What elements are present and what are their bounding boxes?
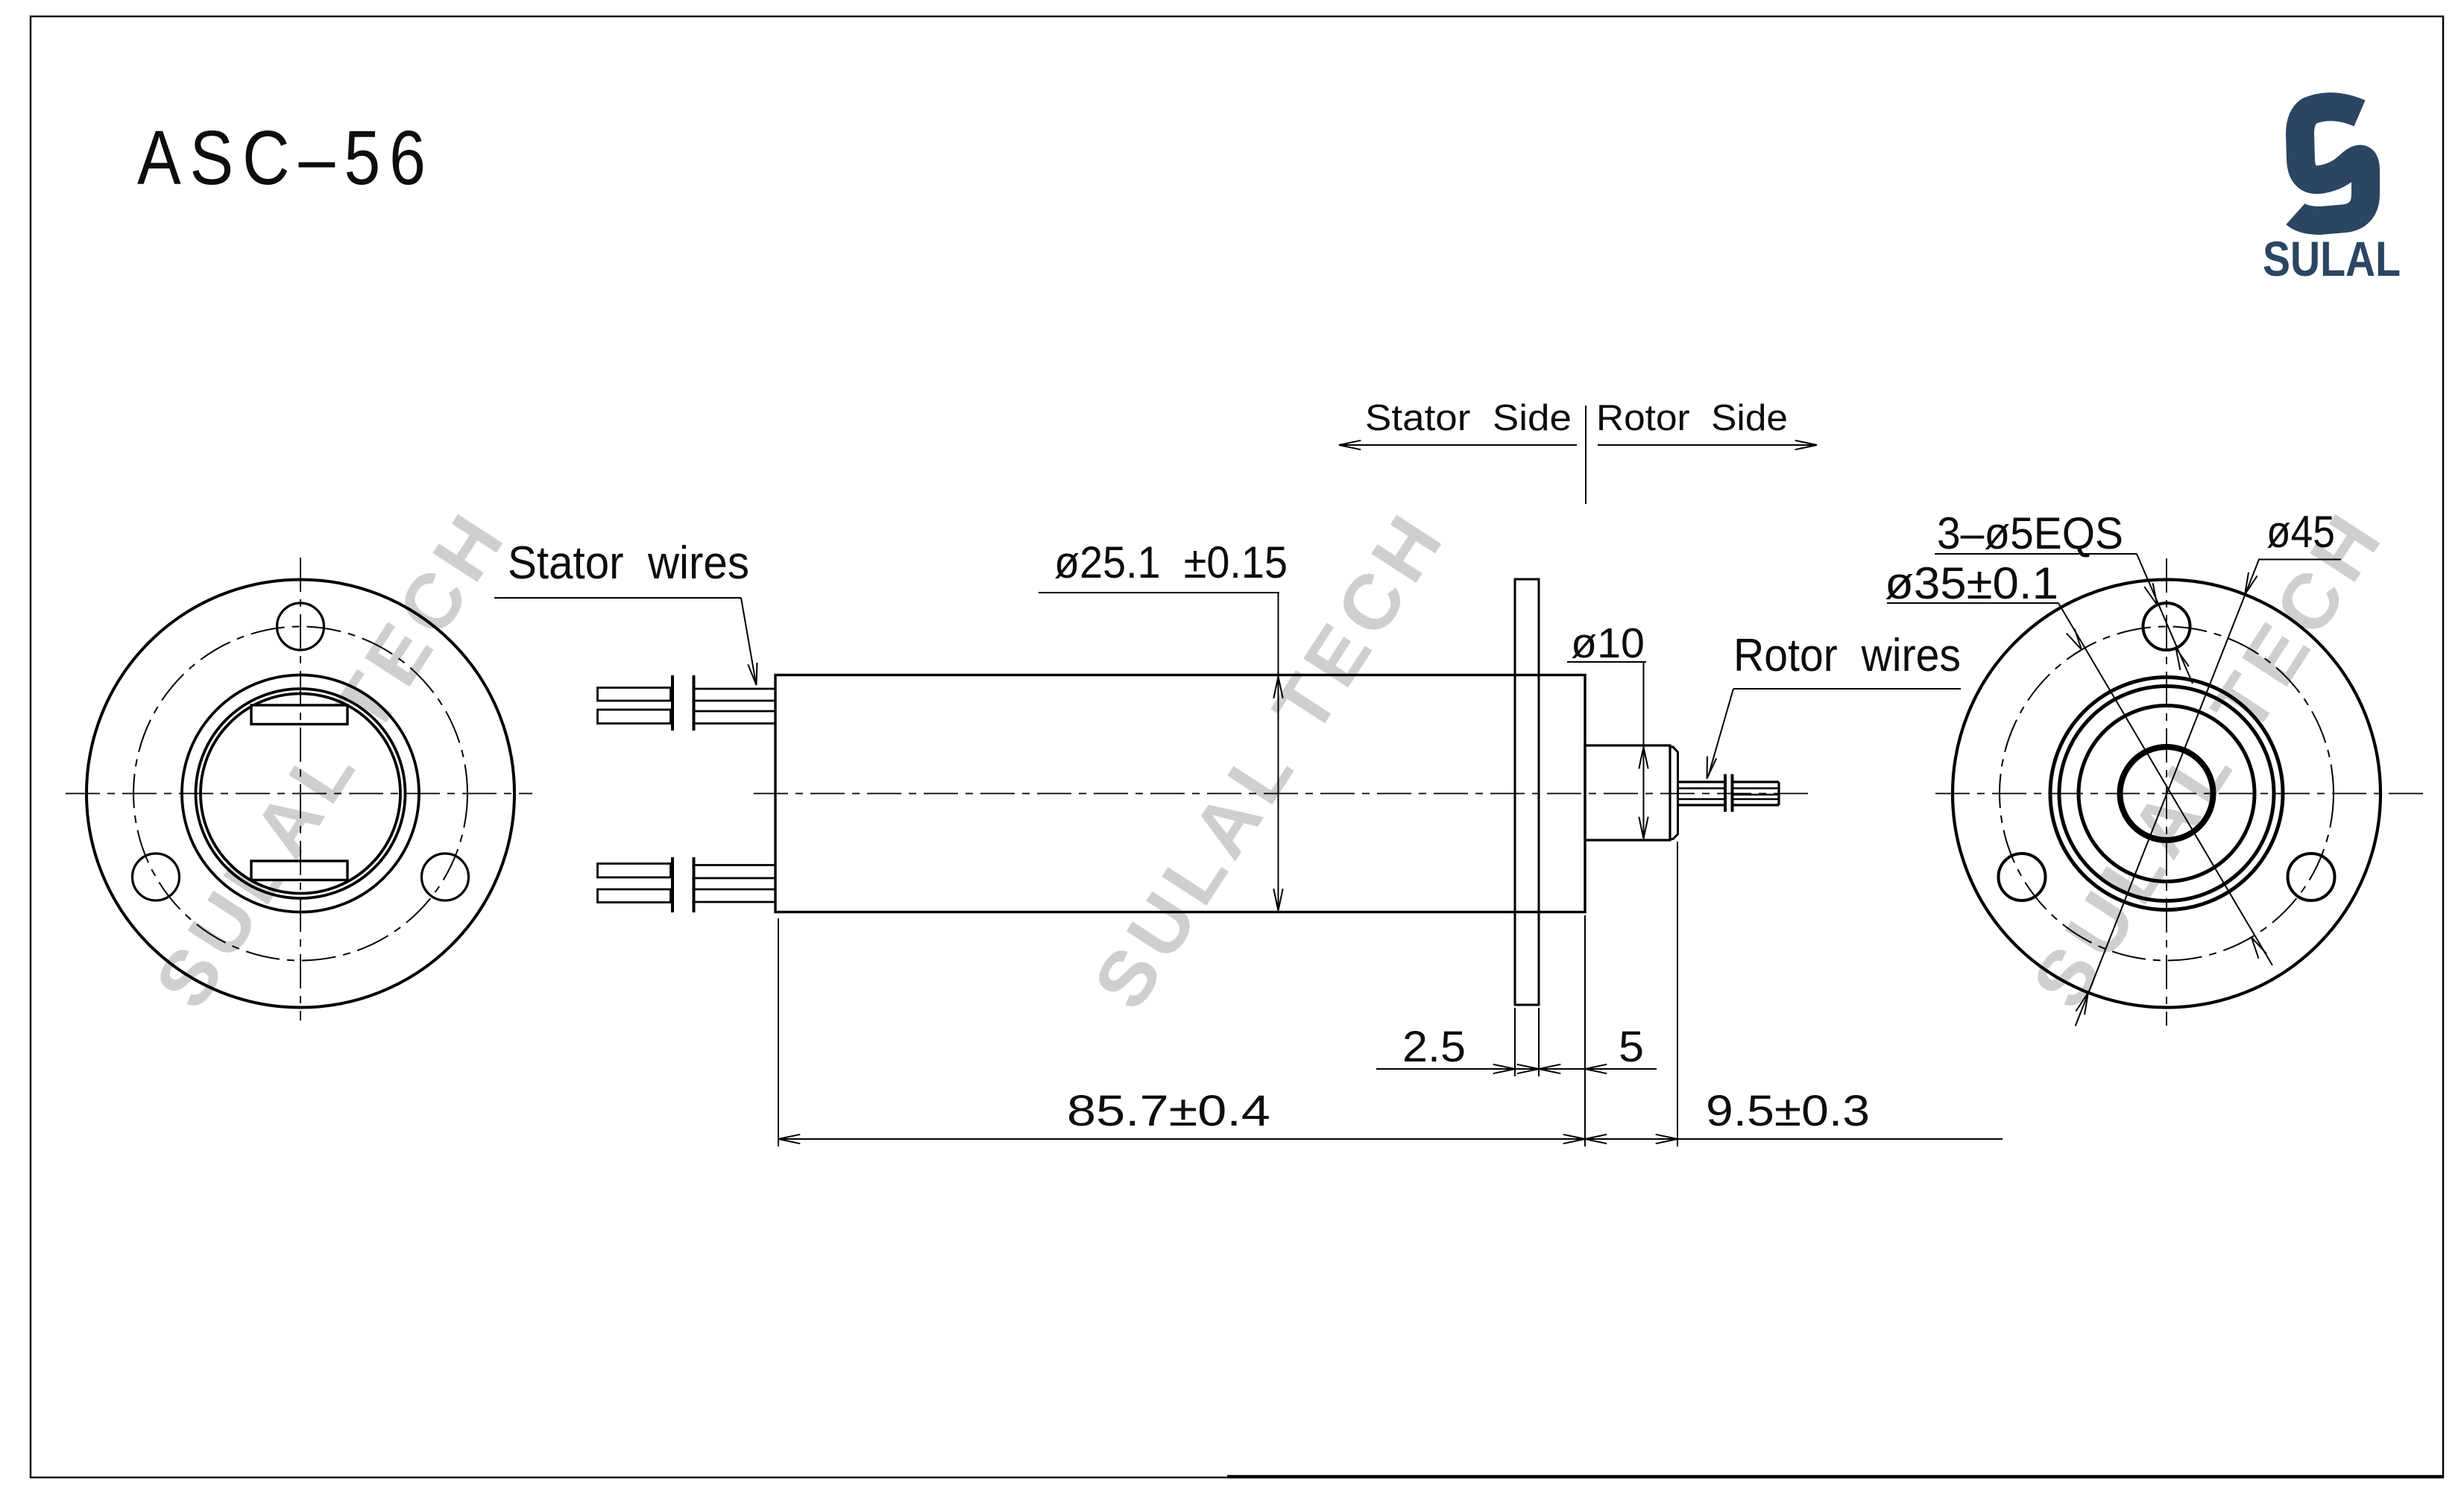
svg-text:3–ø5EQS: 3–ø5EQS bbox=[1937, 508, 2123, 558]
left view bolt circle ø35 (dash-dot) bbox=[133, 627, 467, 961]
extension line rotor end bbox=[1677, 842, 1678, 1146]
svg-text:85.7±0.4: 85.7±0.4 bbox=[1067, 1087, 1270, 1135]
stator wire upper tick 1 bbox=[671, 675, 674, 731]
stator wire upper lead 2 bbox=[598, 710, 671, 724]
watermark middle bbox=[1077, 496, 1463, 1024]
svg-text:ø45: ø45 bbox=[2266, 507, 2335, 557]
right view flange outer circle ø45 bbox=[1953, 580, 2380, 1008]
logo S mark ribbon bbox=[2296, 107, 2366, 221]
rotor wire strands left of ticks bbox=[1678, 780, 1724, 783]
dim line 85.7 and 9.5 bbox=[778, 1138, 2003, 1140]
rotor wires leader underline bbox=[1733, 688, 1961, 690]
rotor wire strands right of ticks bbox=[1734, 780, 1780, 783]
right view ring outer bbox=[2050, 678, 2283, 910]
rotor wire tick 2 bbox=[1731, 774, 1734, 813]
left view top key rectangle bbox=[251, 705, 347, 725]
watermark right bbox=[2016, 495, 2401, 1023]
extension line body right bbox=[1584, 915, 1586, 1146]
right view bolt circle ø35 (dash-dot) bbox=[2000, 627, 2334, 961]
right view vertical centerline bbox=[2166, 558, 2167, 1026]
svg-text:SULAL: SULAL bbox=[2263, 231, 2401, 286]
extension line flange right bbox=[1538, 1008, 1540, 1076]
left view bottom key rectangle bbox=[251, 861, 347, 880]
svg-text:5: 5 bbox=[1619, 1023, 1644, 1071]
left view bolt hole lower-right ø5 bbox=[422, 854, 469, 900]
dim line dia35 diagonal bbox=[2058, 603, 2272, 965]
svg-text:Rotor Side: Rotor Side bbox=[1596, 398, 1788, 438]
rotor boss bbox=[1585, 745, 1670, 840]
svg-text:ø25.1 ±0.15: ø25.1 ±0.15 bbox=[1054, 537, 1288, 587]
left view ring circle middle bbox=[196, 689, 406, 898]
stator wire lower lead 1 bbox=[598, 864, 671, 878]
left view horizontal centerline bbox=[66, 793, 532, 795]
dim line dia45 diagonal bbox=[2076, 560, 2259, 1026]
stator wire lower lead 2 bbox=[598, 889, 671, 903]
stator wire lower tick 2 bbox=[693, 857, 696, 912]
stator/rotor separator line bbox=[1585, 406, 1587, 504]
dim line dia25.1 underline bbox=[1039, 592, 1279, 593]
svg-text:ø35±0.1: ø35±0.1 bbox=[1885, 558, 2058, 608]
rotor wires leader arrow bbox=[1707, 757, 1717, 779]
rotor wire tick 1 bbox=[1724, 774, 1727, 813]
rotor wires leader diagonal bbox=[1708, 689, 1733, 777]
dim line dia45 underline bbox=[2258, 559, 2341, 561]
stator wires leader arrow bbox=[748, 663, 757, 685]
dim line dia10 vertical bbox=[1643, 662, 1645, 839]
extension line flange left bbox=[1514, 1008, 1516, 1076]
svg-text:Stator Side: Stator Side bbox=[1365, 398, 1572, 438]
leader arrows 3-dia5EQS bbox=[2144, 583, 2157, 605]
svg-text:Rotor wires: Rotor wires bbox=[1733, 630, 1961, 681]
leader underline 3-dia5EQS bbox=[1935, 553, 2137, 555]
rotor side arrow line bbox=[1598, 444, 1817, 446]
right view ring middle bbox=[2059, 687, 2274, 901]
right view horizontal centerline bbox=[1935, 793, 2423, 795]
left view flange outer circle ø45 bbox=[86, 580, 514, 1008]
stator wire upper strands into body bbox=[696, 688, 776, 690]
dim arrow dia25.1 down bbox=[1273, 889, 1282, 910]
watermark left bbox=[139, 495, 524, 1023]
dim arrow dia10 up bbox=[1639, 747, 1648, 769]
dim line 2.5 and 5 bbox=[1376, 1068, 1657, 1070]
stator wire lower tick 1 bbox=[671, 857, 674, 912]
stator wires leader underline bbox=[494, 597, 741, 599]
dim arrows 2.5/5 bbox=[1493, 1064, 1515, 1073]
left view ring circle inner bbox=[201, 694, 400, 894]
dim line dia25.1 vertical bbox=[1278, 593, 1279, 912]
body cylinder bbox=[775, 675, 1585, 912]
dim line dia10 underline bbox=[1567, 661, 1646, 663]
dim arrows 85.7/9.5 bbox=[778, 1135, 800, 1143]
leader line 3-dia5EQS bbox=[2137, 554, 2193, 684]
middle view centerline bbox=[754, 793, 1808, 795]
right view bolt hole lower-left bbox=[1999, 854, 2046, 900]
stator wire upper lead 1 bbox=[598, 688, 671, 701]
svg-text:9.5±0.3: 9.5±0.3 bbox=[1706, 1087, 1870, 1135]
dim arrow dia10 down bbox=[1639, 817, 1648, 839]
left view vertical centerline bbox=[300, 558, 301, 1020]
rotor wire bundle end bar bbox=[1777, 782, 1780, 805]
svg-text:ø10: ø10 bbox=[1571, 619, 1645, 667]
svg-text:ASC–56: ASC–56 bbox=[137, 115, 435, 201]
right view bolt hole lower-right bbox=[2288, 854, 2335, 900]
left view bolt hole top ø5 bbox=[277, 603, 324, 650]
stator flange plate bbox=[1515, 579, 1539, 1005]
left view boss outer circle bbox=[182, 675, 419, 912]
extension line body left bbox=[778, 918, 779, 1146]
title block top edge line bbox=[1227, 1475, 2443, 1479]
stator side arrow line bbox=[1339, 444, 1577, 446]
right view ring inner bbox=[2079, 706, 2255, 882]
left view bolt hole lower-left ø5 bbox=[133, 854, 180, 900]
dim line dia35 underline bbox=[1887, 602, 2058, 604]
svg-text:Stator wires: Stator wires bbox=[508, 537, 749, 589]
dim arrow dia25.1 up bbox=[1273, 677, 1282, 698]
dim arrows dia35 bbox=[2067, 628, 2082, 649]
dim arrows dia45 bbox=[2245, 572, 2257, 595]
stator wires leader diagonal bbox=[741, 598, 756, 684]
svg-text:2.5: 2.5 bbox=[1402, 1023, 1466, 1071]
stator wire lower strands into body bbox=[696, 864, 776, 866]
right view rotor shaft bore ø10 (bold) bbox=[2120, 747, 2213, 840]
rotor end cap bbox=[1670, 747, 1678, 839]
stator wire upper tick 2 bbox=[693, 675, 696, 731]
right view bolt hole top bbox=[2143, 603, 2190, 650]
